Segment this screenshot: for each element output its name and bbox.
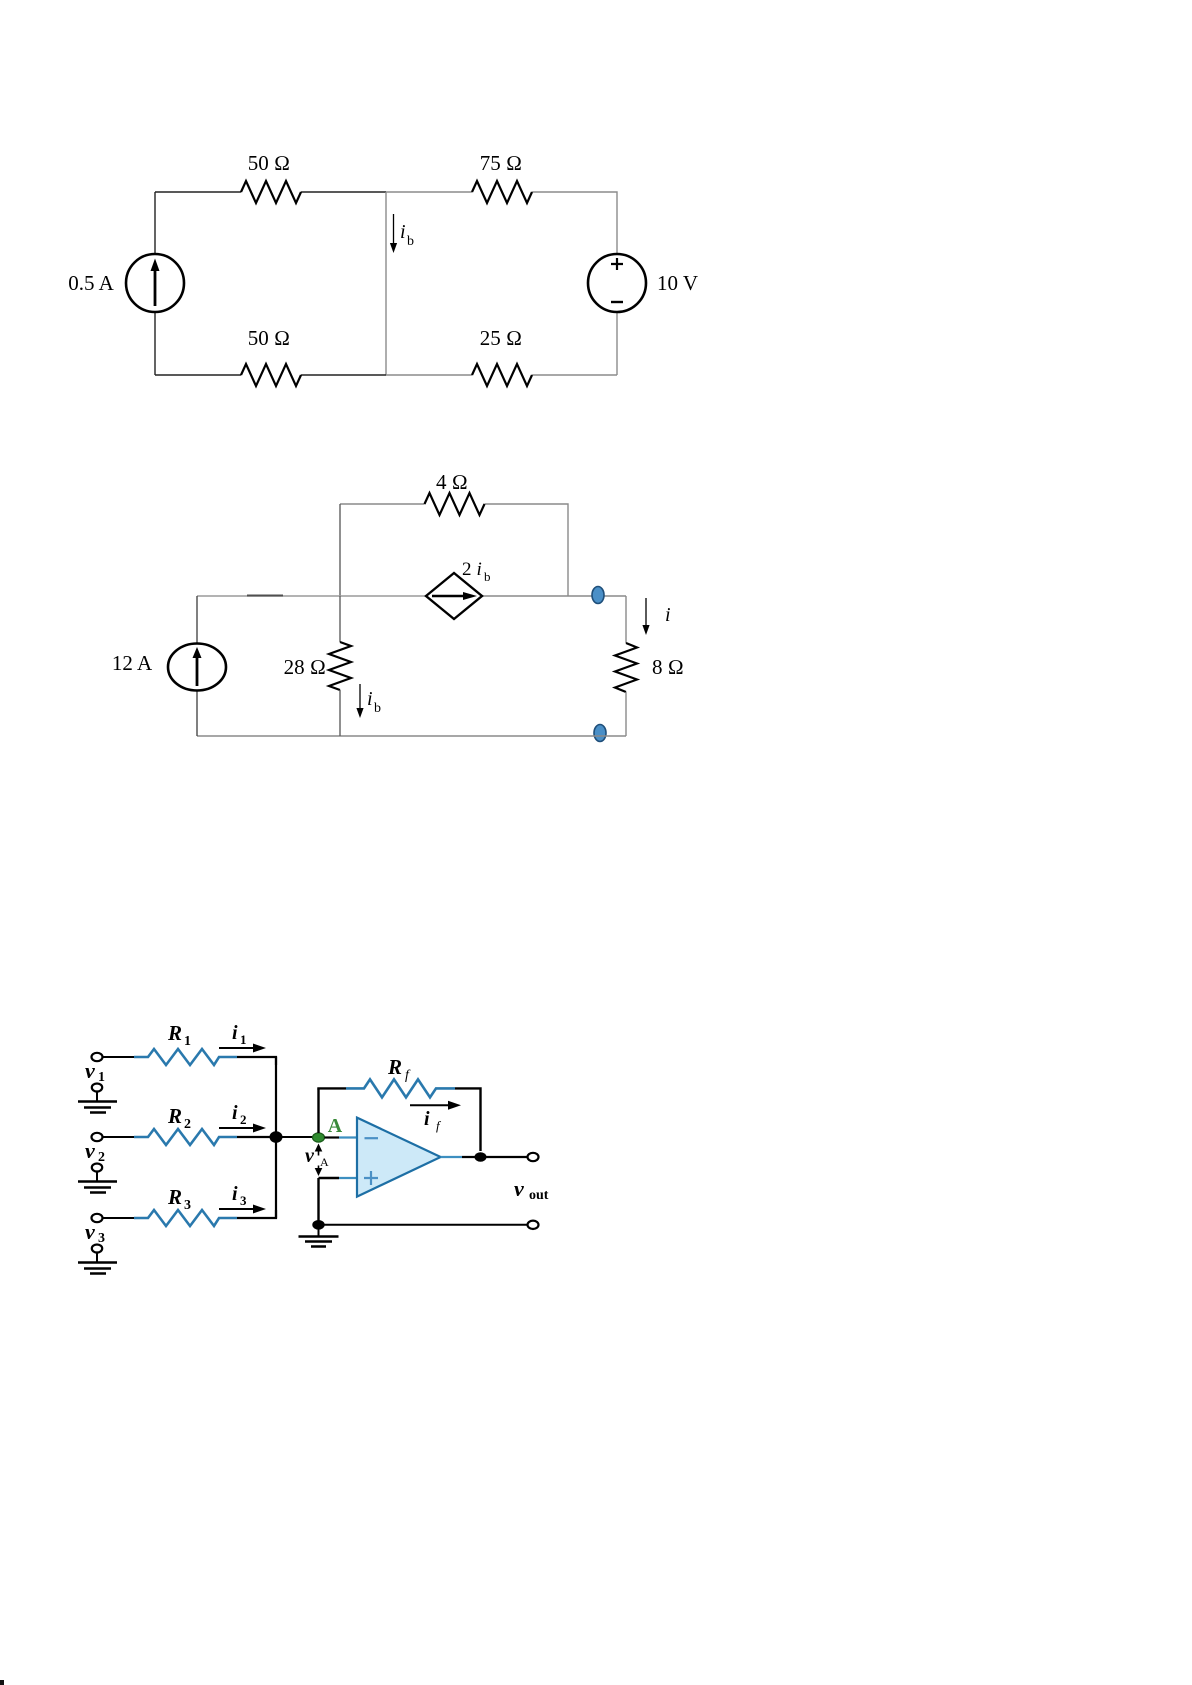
junction output dot [475, 1152, 487, 1162]
svg-text:f: f [436, 1118, 442, 1133]
wire middle vertical branch [385, 192, 387, 375]
svg-text:b: b [484, 569, 491, 584]
svg-text:i: i [665, 604, 671, 626]
value label 50 ohm top [248, 151, 290, 175]
wire top-middle segment [301, 191, 386, 193]
svg-text:i: i [232, 1183, 238, 1205]
svg-text:2: 2 [184, 1117, 191, 1132]
resistor R3 [134, 1210, 237, 1226]
node A [313, 1133, 325, 1142]
value label 25 ohm [480, 326, 522, 350]
wire v3 lead [102, 1217, 135, 1219]
wire 4ohm branch left vertical [339, 504, 341, 596]
wire top loop right segment [485, 504, 569, 596]
svg-text:A: A [320, 1155, 329, 1169]
wire bottom-left segment [155, 374, 241, 376]
svg-text:b: b [374, 701, 381, 716]
input terminal v1 [92, 1053, 103, 1061]
wire top-far-right segment [532, 192, 617, 254]
label R3 [167, 1185, 191, 1213]
label v1 [85, 1058, 105, 1085]
junction bus dot [270, 1131, 283, 1143]
svg-text:3: 3 [240, 1193, 247, 1208]
svg-text:i: i [232, 1102, 238, 1124]
wire middle row right segment [482, 595, 626, 597]
svg-text:i: i [400, 221, 406, 243]
label vout [514, 1176, 549, 1203]
wire 28ohm branch upper [339, 596, 341, 642]
svg-text:2: 2 [462, 559, 472, 580]
wire R2 to junction [237, 1136, 275, 1138]
wire 28ohm branch lower [339, 690, 341, 736]
svg-text:1: 1 [240, 1032, 247, 1047]
svg-text:1: 1 [184, 1034, 191, 1049]
value label 8 ohm [652, 655, 684, 679]
svg-text:R: R [167, 1021, 182, 1045]
value label 50 ohm bottom [248, 326, 290, 350]
node terminal blue oval bottom [594, 725, 606, 742]
wire bottom row c2 [197, 735, 626, 737]
resistor R1 [134, 1049, 237, 1065]
svg-text:3: 3 [184, 1198, 191, 1213]
svg-text:R: R [387, 1055, 402, 1079]
wire bottom-middle segment [301, 374, 386, 376]
label ib circuit2 [367, 688, 381, 716]
wire left vertical lower c2 [196, 691, 198, 736]
wire node A to op-amp minus input [325, 1136, 358, 1138]
resistor 25ohm bottom-right [472, 364, 532, 386]
wire bus to node A [276, 1136, 313, 1138]
svg-text:v: v [85, 1138, 95, 1163]
resistor 8ohm [615, 643, 637, 692]
wire plus input horizontal [319, 1177, 358, 1179]
wire R3 to bus [237, 1210, 276, 1218]
svg-text:v: v [305, 1145, 315, 1167]
label R2 [167, 1104, 191, 1132]
wire bottom-right segment [386, 374, 472, 376]
label if [424, 1108, 442, 1133]
current arrow i [642, 598, 649, 635]
wire feedback vertical from node A [317, 1088, 319, 1133]
input terminal v3 [92, 1214, 103, 1222]
current source 12A [168, 644, 226, 691]
wire summing bus vertical [275, 1057, 277, 1218]
svg-text:8 Ω: 8 Ω [652, 655, 684, 679]
label i1 [232, 1022, 247, 1047]
svg-text:b: b [407, 234, 414, 249]
op-amp U1 [357, 1118, 441, 1197]
wire top-right segment [386, 191, 472, 193]
current source 0.5A [126, 254, 184, 312]
svg-text:i: i [232, 1022, 238, 1044]
voltage source 10V [588, 254, 646, 312]
svg-text:25 Ω: 25 Ω [480, 326, 522, 350]
wire v1 lead [102, 1056, 135, 1058]
svg-text:R: R [167, 1104, 182, 1128]
svg-text:v: v [514, 1176, 524, 1201]
ground symbol op-amp [299, 1225, 339, 1247]
resistor Rf [346, 1079, 455, 1097]
resistor 75ohm top-right [472, 181, 532, 203]
label v2 [85, 1138, 105, 1165]
value label 12 A [112, 651, 153, 675]
wire bottom-far-right segment [532, 374, 617, 376]
current arrow ib circuit1 [390, 214, 397, 253]
input terminal v2 [92, 1133, 103, 1141]
resistor 50ohm top-left [241, 181, 301, 203]
svg-text:out: out [529, 1188, 549, 1203]
svg-text:v: v [85, 1058, 95, 1083]
wire op-amp output [441, 1156, 529, 1158]
label i3 [232, 1183, 247, 1208]
value label 75 ohm [480, 151, 522, 175]
dependent source 2ib diamond [426, 573, 482, 619]
wire feedback right lead [455, 1088, 481, 1151]
output terminal bottom [528, 1221, 539, 1229]
label v3 [85, 1219, 105, 1246]
wire left vertical [154, 192, 156, 254]
wire R1 to bus [237, 1057, 276, 1065]
current arrow i3 [219, 1205, 266, 1214]
wire feedback top left lead [317, 1087, 346, 1089]
svg-text:50 Ω: 50 Ω [248, 151, 290, 175]
svg-text:75 Ω: 75 Ω [480, 151, 522, 175]
current arrow ib circuit2 [356, 684, 363, 718]
wire top-left segment [155, 191, 241, 193]
current arrow if [410, 1101, 461, 1110]
svg-text:50 Ω: 50 Ω [248, 326, 290, 350]
svg-text:12 A: 12 A [112, 651, 153, 675]
svg-text:4 Ω: 4 Ω [436, 470, 468, 494]
label i [665, 604, 671, 626]
resistor 28ohm [329, 642, 351, 690]
svg-text:R: R [167, 1185, 182, 1209]
value label 4 ohm [436, 470, 468, 494]
current arrow i2 [219, 1124, 266, 1133]
label R1 [167, 1021, 191, 1049]
wire left vertical upper c2 [196, 596, 198, 643]
resistor 4ohm [425, 493, 485, 515]
wire ground row to output terminal bottom [319, 1224, 529, 1226]
resistor 50ohm bottom-left [241, 364, 301, 386]
junction ground dot [312, 1220, 324, 1230]
current arrow i1 [219, 1044, 266, 1053]
wire v2 lead [102, 1136, 135, 1138]
svg-text:10 V: 10 V [657, 271, 698, 295]
wire right vertical upper [625, 596, 627, 643]
resistor R2 [134, 1129, 237, 1145]
svg-text:i: i [367, 688, 373, 710]
label i2 [232, 1102, 247, 1127]
wire left vertical lower [154, 312, 156, 375]
svg-text:f: f [405, 1068, 411, 1083]
value label 0.5 A [68, 271, 114, 295]
node terminal blue oval top [592, 587, 604, 604]
svg-text:i: i [424, 1108, 430, 1130]
svg-text:A: A [328, 1115, 343, 1137]
page corner mark [0, 1680, 4, 1685]
svg-text:i: i [477, 559, 482, 580]
wire right vertical lower c2 [625, 692, 627, 736]
wire overlap segment mid row [247, 595, 283, 597]
value label 28 ohm [284, 655, 326, 679]
label A [328, 1115, 343, 1137]
ground under v1 [78, 1084, 117, 1113]
voltage arrow vA [315, 1144, 323, 1177]
svg-text:0.5 A: 0.5 A [68, 271, 114, 295]
wire top loop left segment [340, 503, 425, 505]
label vA [305, 1145, 329, 1169]
wire right vertical lower [616, 312, 618, 375]
svg-text:2: 2 [240, 1112, 247, 1127]
wire plus input vertical to ground junction [317, 1178, 319, 1225]
ground under v3 [78, 1245, 117, 1274]
label Rf [387, 1055, 411, 1083]
output terminal top [528, 1153, 539, 1161]
value label 10 V [657, 271, 698, 295]
ground under v2 [78, 1164, 117, 1193]
svg-text:v: v [85, 1219, 95, 1244]
wire middle row left segment [197, 595, 426, 597]
label ib circuit1 [400, 221, 414, 249]
svg-text:28 Ω: 28 Ω [284, 655, 326, 679]
label 2 ib [462, 559, 491, 584]
